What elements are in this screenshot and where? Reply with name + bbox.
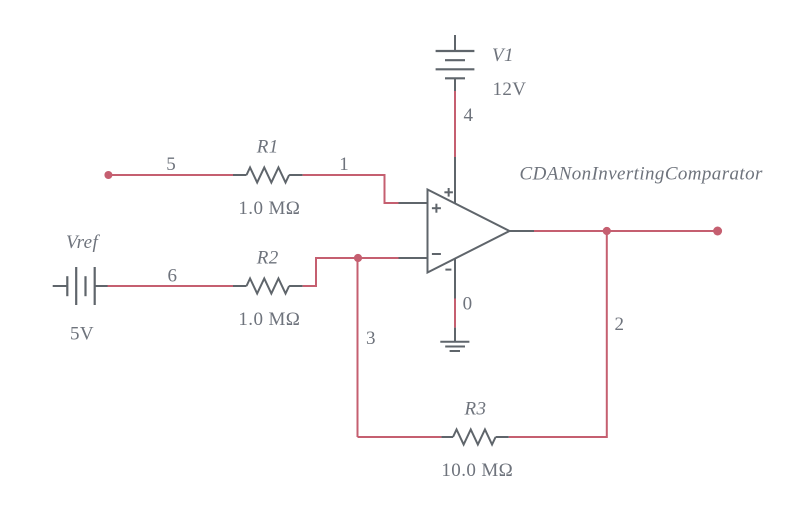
svg-text:5V: 5V bbox=[70, 324, 94, 345]
wire net 5 bbox=[108, 174, 233, 176]
wire net 6 bbox=[108, 285, 233, 287]
svg-text:R3: R3 bbox=[464, 398, 487, 419]
svg-text:3: 3 bbox=[366, 328, 376, 349]
svg-text:0: 0 bbox=[463, 293, 473, 314]
svg-text:4: 4 bbox=[464, 105, 474, 126]
wire net 3 bottom to R3 bbox=[358, 436, 442, 438]
wire net 3 vertical bbox=[357, 258, 359, 437]
svg-text:12V: 12V bbox=[493, 79, 527, 100]
svg-text:R2: R2 bbox=[256, 247, 279, 268]
wire net 3 from R2 to minus input bbox=[303, 258, 399, 286]
wire net 0 (opamp minus supply to ground) bbox=[454, 299, 456, 328]
output terminal bbox=[713, 227, 722, 236]
resistor R1 bbox=[233, 168, 303, 183]
input terminal node 5 bbox=[104, 171, 112, 179]
svg-text:1.0 MΩ: 1.0 MΩ bbox=[238, 309, 300, 330]
resistor R3 bbox=[441, 430, 508, 445]
svg-text:Vref: Vref bbox=[66, 232, 101, 253]
voltage source V1 bbox=[436, 35, 475, 91]
wire net 4 bbox=[454, 91, 456, 157]
ground bbox=[440, 328, 469, 351]
wire net 1 bbox=[303, 175, 399, 203]
svg-text:6: 6 bbox=[168, 266, 178, 287]
junction node 3 bbox=[354, 254, 362, 262]
svg-text:V1: V1 bbox=[492, 45, 514, 66]
wire net 2 output bbox=[534, 230, 718, 232]
svg-text:1.0 MΩ: 1.0 MΩ bbox=[238, 198, 300, 219]
resistor R2 bbox=[233, 279, 303, 294]
svg-text:R1: R1 bbox=[256, 136, 279, 157]
junction node 2 bbox=[603, 227, 611, 235]
svg-text:1: 1 bbox=[339, 154, 349, 175]
wire net 2 vertical bbox=[509, 231, 607, 437]
svg-text:2: 2 bbox=[615, 314, 625, 335]
svg-text:5: 5 bbox=[166, 154, 176, 175]
svg-text:CDANonInvertingComparator: CDANonInvertingComparator bbox=[520, 163, 763, 184]
svg-text:10.0 MΩ: 10.0 MΩ bbox=[441, 460, 513, 481]
op-amp U1 bbox=[399, 157, 535, 299]
voltage source Vref bbox=[53, 267, 108, 305]
